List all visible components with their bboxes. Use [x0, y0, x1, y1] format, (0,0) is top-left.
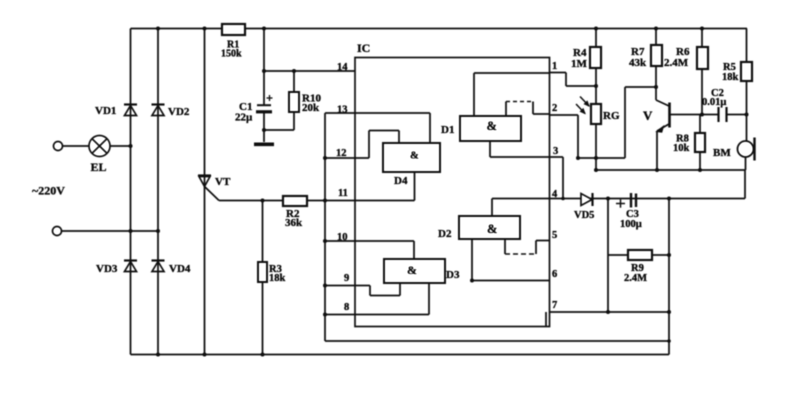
svg-text:2: 2	[552, 103, 557, 114]
svg-text:BM: BM	[713, 147, 731, 159]
svg-text:D3: D3	[446, 269, 460, 281]
svg-text:9: 9	[344, 273, 349, 284]
svg-text:&: &	[410, 151, 419, 162]
svg-text:7: 7	[552, 300, 557, 311]
svg-text:4: 4	[552, 189, 558, 200]
svg-text:VT: VT	[215, 176, 231, 188]
svg-text:VD5: VD5	[574, 210, 594, 221]
svg-text:D4: D4	[394, 175, 408, 187]
svg-text:RG: RG	[603, 110, 620, 122]
svg-text:&: &	[487, 119, 497, 133]
svg-text:13: 13	[337, 105, 348, 116]
svg-text:18k: 18k	[722, 72, 739, 83]
svg-text:20k: 20k	[302, 102, 320, 114]
svg-text:VD2: VD2	[168, 106, 190, 118]
svg-text:VD1: VD1	[95, 105, 116, 117]
svg-text:3: 3	[553, 146, 558, 157]
svg-text:100μ: 100μ	[620, 219, 642, 230]
svg-text:36k: 36k	[285, 217, 303, 229]
svg-text:2.4M: 2.4M	[624, 273, 647, 284]
svg-text:10: 10	[337, 232, 348, 243]
svg-text:18k: 18k	[269, 273, 286, 284]
svg-text:0.01μ: 0.01μ	[702, 97, 726, 108]
svg-text:10k: 10k	[673, 143, 690, 154]
svg-text:EL: EL	[91, 160, 107, 174]
svg-text:IC: IC	[357, 41, 370, 55]
svg-text:VD3: VD3	[96, 263, 118, 275]
svg-text:D1: D1	[441, 124, 454, 136]
svg-text:22μ: 22μ	[235, 112, 253, 124]
svg-text:12: 12	[336, 148, 347, 159]
svg-text:VD4: VD4	[169, 263, 191, 275]
svg-text:~220V: ~220V	[32, 184, 65, 198]
svg-text:6: 6	[552, 269, 557, 280]
svg-text:14: 14	[337, 62, 348, 73]
svg-text:43k: 43k	[629, 57, 647, 69]
svg-text:5: 5	[552, 230, 557, 241]
svg-text:8: 8	[344, 302, 349, 313]
svg-text:D2: D2	[438, 228, 452, 240]
svg-text:&: &	[487, 222, 497, 236]
svg-text:11: 11	[338, 188, 348, 199]
svg-text:1: 1	[552, 61, 557, 72]
svg-text:1M: 1M	[571, 58, 588, 70]
svg-text:V: V	[643, 108, 653, 123]
svg-text:2.4M: 2.4M	[664, 57, 689, 69]
svg-text:150k: 150k	[221, 49, 242, 60]
svg-text:&: &	[407, 263, 417, 277]
